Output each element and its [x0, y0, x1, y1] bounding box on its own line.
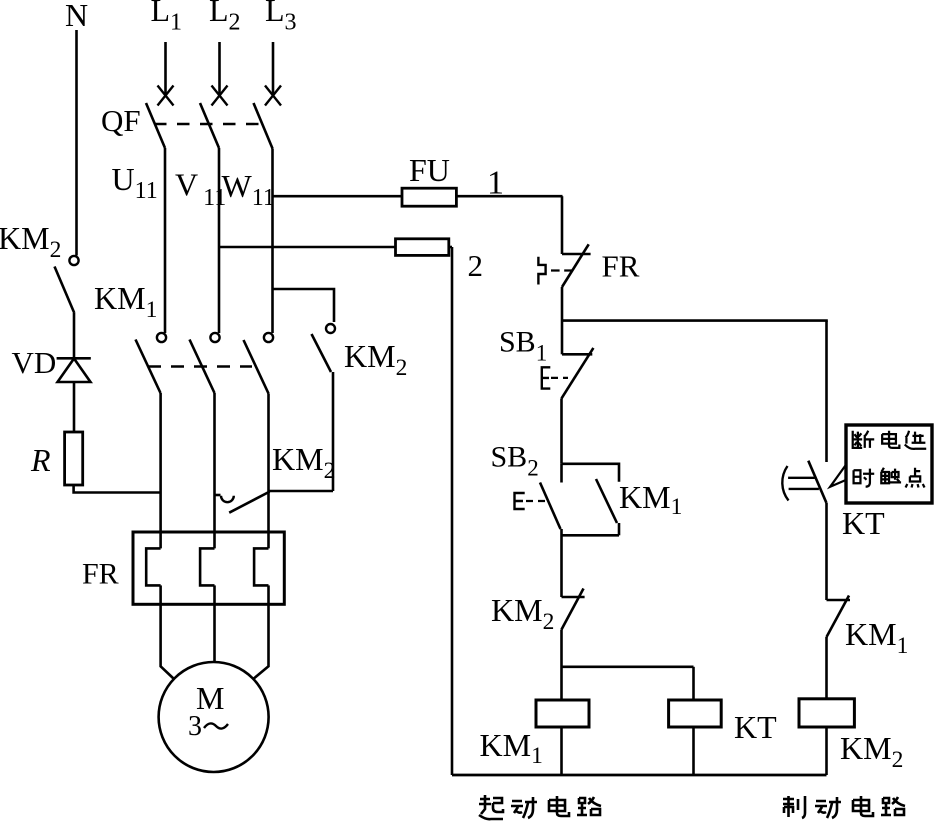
fuse FU label	[409, 152, 450, 188]
wire KM1 NC to KM2 coil	[825, 637, 828, 699]
node 2 label	[468, 248, 484, 283]
svg-text:W11: W11	[222, 168, 275, 211]
wire motor lead W	[253, 604, 268, 679]
contact KM2 pole4 blade	[312, 334, 332, 372]
svg-text:KM2: KM2	[272, 441, 335, 484]
button SB2 dashed link	[526, 500, 546, 502]
wire bottom bus	[452, 774, 827, 777]
contact FR control blade	[562, 244, 589, 287]
wire SB1 to split	[560, 398, 563, 463]
wire KT branch down	[692, 667, 695, 700]
wire right rail down	[825, 321, 828, 462]
svg-text:N: N	[65, 0, 88, 33]
contact KT delay bar lower	[789, 488, 819, 490]
contact KM2 bridge fixed semicircle	[221, 496, 234, 502]
wire 1 rail down to FR	[561, 196, 564, 254]
wire KT coil to bottom bus	[692, 727, 695, 775]
breaker QF blade 3	[254, 103, 273, 149]
contact KM1 pole2 circle	[210, 333, 219, 342]
diode VD symbol	[57, 358, 91, 382]
contact FR control dashed link	[551, 269, 572, 271]
svg-text:KM1: KM1	[94, 280, 157, 323]
contact FR control actuator	[538, 257, 545, 285]
contact FR control tick	[562, 253, 591, 256]
wire 2 fuse to corner	[449, 246, 452, 249]
wire KM1 aux lower	[618, 523, 621, 535]
contactor KM1 main label	[94, 280, 157, 323]
contact KM1 aux label	[619, 479, 682, 520]
wire 2 rail down	[451, 247, 454, 775]
terminal X cross L3	[265, 86, 281, 106]
node 1 label	[487, 165, 504, 202]
motor M circle	[159, 662, 269, 772]
callout text 断电延	[853, 431, 927, 449]
wire KT contact to KM1 NC	[825, 503, 828, 600]
contact KM1 pole1 circle	[157, 333, 166, 342]
wire R to U line	[74, 485, 161, 493]
wire L1 drop with arrow	[164, 42, 167, 96]
wire KM2 to VD	[73, 313, 76, 358]
svg-text:KM1: KM1	[845, 616, 908, 659]
node U11 label	[112, 161, 158, 204]
wire V heater to FR box bottom	[213, 585, 216, 604]
breaker QF linkage dashed	[154, 123, 262, 125]
relay FR heater U	[146, 548, 160, 585]
contact KT delay blade	[808, 461, 826, 503]
wire junction to SB1	[561, 321, 564, 354]
callout box	[846, 425, 932, 503]
relay FR label	[82, 558, 119, 591]
button SB2 label	[491, 441, 539, 481]
node W11 label	[222, 168, 275, 211]
wire split to KM1 aux	[562, 464, 620, 482]
svg-text:KM2: KM2	[344, 338, 407, 381]
coil KM1 body	[536, 700, 589, 727]
svg-text:FR: FR	[602, 249, 640, 284]
fuse FU body 1	[402, 188, 456, 206]
motor M label	[196, 680, 224, 716]
node N label	[65, 0, 88, 33]
wire KM2 branch tap from W	[273, 289, 335, 322]
wire phase V lower	[213, 393, 216, 548]
contact KM1 linkage dashed	[148, 365, 252, 367]
wire W heater to FR box bottom	[267, 585, 270, 604]
button SB1 actuator E	[542, 367, 551, 388]
svg-text:3: 3	[188, 711, 202, 742]
button SB1 tick	[562, 353, 592, 356]
svg-text:SB2: SB2	[491, 441, 539, 481]
svg-text:L2: L2	[209, 0, 241, 36]
wire KM1 coil to bottom bus	[560, 727, 563, 775]
coil KM2 body	[799, 699, 854, 727]
wire top rail to braking branch	[562, 319, 828, 322]
contact KM1 pole3 circle	[264, 333, 273, 342]
wire motor lead U	[161, 604, 174, 679]
contact KM1 pole3 blade	[244, 340, 269, 394]
contact KM2 left terminal circle	[69, 256, 78, 265]
resistor R label	[30, 442, 51, 478]
contact KT delay bar upper	[788, 477, 815, 479]
caption 制动电路	[783, 796, 905, 818]
svg-text:VD: VD	[12, 345, 57, 380]
contact KM1 aux blade	[596, 479, 617, 523]
contact KM2 pole4 circle	[326, 324, 335, 333]
fuse FU body 2	[396, 239, 449, 256]
contact KM2 left blade	[55, 267, 75, 314]
motor 3-phase label	[188, 711, 202, 742]
svg-text:KM2: KM2	[491, 592, 554, 635]
wire 1 fuse to right rail	[456, 195, 562, 198]
button SB1 label	[499, 326, 547, 366]
terminal X cross L1	[158, 86, 174, 106]
svg-text:L3: L3	[265, 0, 297, 36]
wire KM2 coil to bottom bus	[825, 727, 828, 775]
contact KM1 NC right label	[845, 616, 908, 659]
svg-text:L1: L1	[151, 0, 183, 36]
relay FR heater V	[200, 548, 214, 585]
contactor KM2 pole4 label	[344, 338, 407, 381]
button SB2 blade	[540, 483, 561, 530]
contact KM2 NC label	[491, 592, 554, 635]
wire FR to junction	[561, 287, 564, 321]
svg-text:SB1: SB1	[499, 326, 547, 366]
wire 1 from W11 to fuse	[273, 195, 403, 198]
wire phase U upper	[164, 148, 167, 333]
wire L2 drop with arrow	[218, 42, 221, 96]
wire U heater to FR box bottom	[159, 585, 162, 604]
coil KM2 label	[840, 730, 903, 773]
svg-text:R: R	[30, 442, 51, 478]
breaker QF label	[101, 103, 141, 138]
terminal X cross L2	[212, 86, 228, 106]
contact KT label	[842, 505, 885, 541]
node V11 label	[175, 167, 226, 212]
coil KT body	[669, 700, 722, 727]
button SB1 dashed link	[551, 377, 568, 379]
svg-text:2: 2	[468, 248, 484, 283]
relay FR box	[133, 532, 284, 604]
wire L3 drop with arrow	[272, 42, 275, 96]
wire N vertical	[75, 30, 78, 256]
svg-text:FU: FU	[409, 152, 450, 188]
contact KM1 NC right tick	[827, 599, 851, 602]
button SB2 actuator E	[515, 493, 525, 509]
callout pointer	[830, 464, 847, 487]
wire coil junction horizontal	[562, 665, 694, 668]
contact KM2 NC tick	[562, 596, 585, 599]
contact KM1 pole1 blade	[136, 340, 161, 394]
svg-text:KM2: KM2	[0, 220, 61, 263]
diode VD label	[12, 345, 57, 380]
coil KM1 label	[480, 727, 543, 769]
wire KM2 branch bottom to W	[269, 490, 334, 493]
wire 2 from V11 to fuse	[219, 246, 396, 249]
contact KM2 NC blade	[562, 589, 584, 630]
breaker QF blade 2	[200, 103, 219, 148]
wire VD to R	[73, 382, 76, 432]
node L3 label	[265, 0, 297, 36]
button SB2 upper terminal	[560, 464, 563, 483]
relay FR heater W	[254, 548, 268, 585]
wire phase U lower	[159, 393, 162, 548]
svg-text:U11: U11	[112, 161, 158, 204]
contact KM2 bridge fixed tick	[215, 494, 221, 497]
svg-text:KT: KT	[842, 505, 885, 541]
svg-text:KM2: KM2	[840, 730, 903, 773]
node L1 label	[151, 0, 183, 36]
contact FR control label	[602, 249, 640, 284]
wire SB2 to KM2 NC	[560, 529, 563, 597]
svg-text:KM1: KM1	[480, 727, 543, 769]
caption 起动电路	[479, 795, 601, 819]
wire phase V upper	[218, 148, 221, 333]
svg-text:KT: KT	[734, 709, 777, 745]
wire phase W lower	[267, 394, 270, 549]
callout text 时触点	[854, 468, 925, 488]
resistor R body	[65, 432, 83, 485]
svg-text:KM1: KM1	[619, 479, 682, 520]
svg-text:FR: FR	[82, 558, 119, 591]
contactor KM2 bridge label	[272, 441, 335, 484]
contact KT delay arc	[782, 466, 788, 501]
wire KM2 branch down	[332, 372, 335, 491]
button SB1 blade	[562, 348, 594, 399]
wire phase W upper	[271, 149, 274, 334]
breaker QF blade 1	[146, 103, 165, 148]
node L2 label	[209, 0, 241, 36]
wire KM2 NC to coil junction	[560, 630, 563, 701]
motor tilde	[204, 723, 228, 728]
svg-text:QF: QF	[101, 103, 141, 138]
contact KM2 bridge blade	[229, 492, 269, 513]
contactor KM2 left label	[0, 220, 61, 263]
contact KM1 pole2 blade	[190, 340, 215, 394]
svg-text:1: 1	[487, 165, 504, 202]
contact KM1 NC right blade	[827, 596, 850, 638]
coil KT label	[734, 709, 777, 745]
wire motor lead V	[213, 604, 216, 662]
wire merge horizontal	[562, 534, 620, 537]
